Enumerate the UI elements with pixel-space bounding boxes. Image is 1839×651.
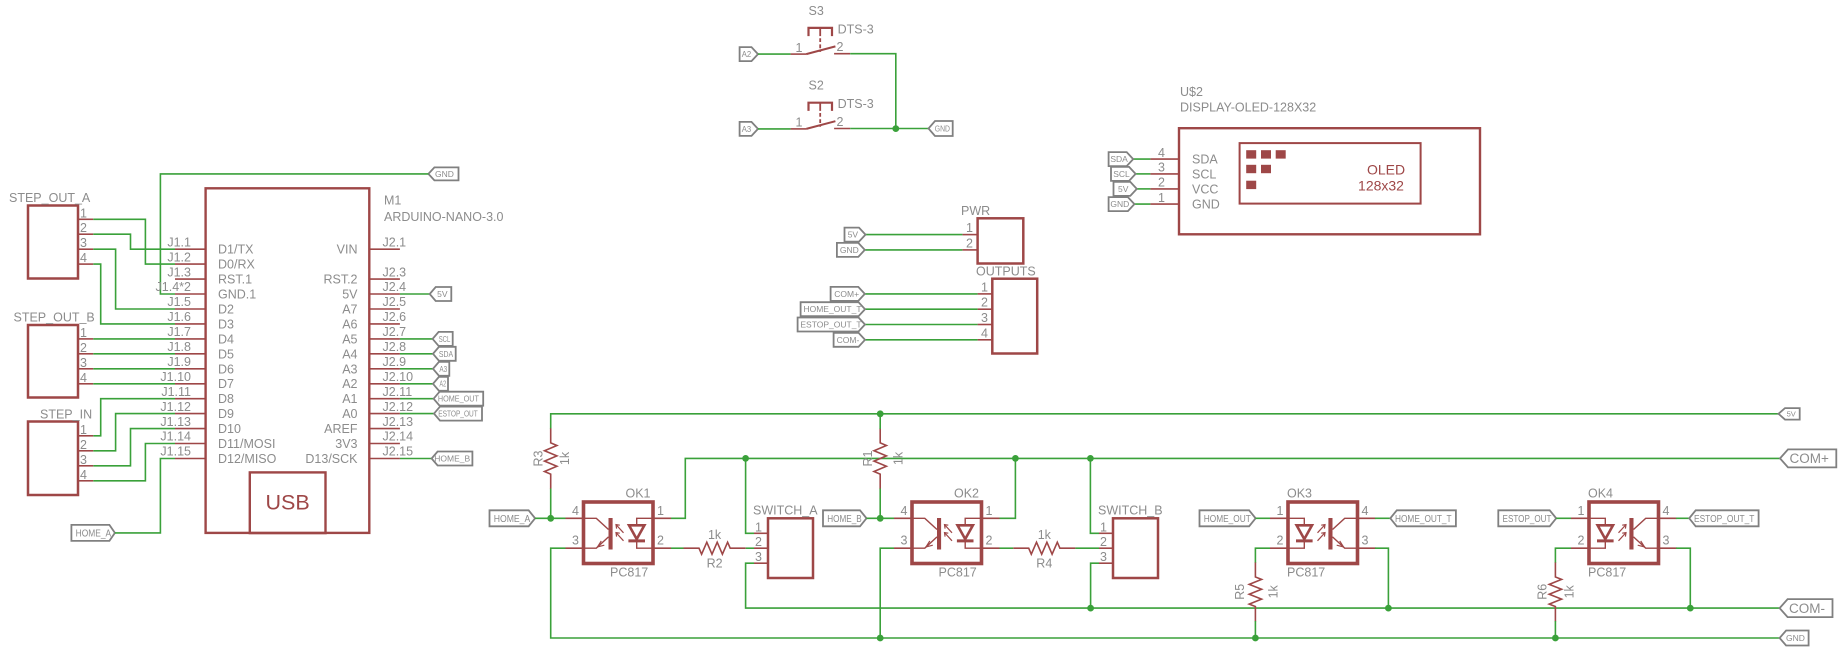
svg-text:A2: A2 <box>342 377 357 391</box>
svg-text:GND: GND <box>435 169 454 179</box>
svg-text:D6: D6 <box>218 362 234 376</box>
net flag GND <box>428 167 458 180</box>
svg-text:3: 3 <box>572 534 579 548</box>
wire COM+ to OUTPUTS <box>865 293 978 295</box>
wire SDA to U$2 <box>1133 158 1150 160</box>
svg-text:PC817: PC817 <box>610 566 648 580</box>
svg-text:3: 3 <box>1100 550 1107 564</box>
svg-text:2: 2 <box>1158 176 1165 190</box>
svg-text:A0: A0 <box>342 407 357 421</box>
svg-text:4: 4 <box>80 468 87 482</box>
svg-text:3: 3 <box>1663 534 1670 548</box>
svg-text:J2.7: J2.7 <box>383 325 407 339</box>
USB port of M1 <box>250 472 326 533</box>
svg-text:3: 3 <box>981 311 988 325</box>
net flag HOME_A <box>71 525 115 541</box>
net flag SCL <box>433 332 453 346</box>
junction R5 / GND rail <box>1252 635 1259 642</box>
svg-text:HOME_OUT: HOME_OUT <box>1204 514 1251 525</box>
net flag A3 <box>740 122 758 136</box>
svg-text:HOME_OUT_T: HOME_OUT_T <box>803 304 861 314</box>
svg-text:ESTOP_OUT_T: ESTOP_OUT_T <box>1694 514 1754 525</box>
junction SWITCH_B.3 / COM- rail <box>1087 605 1094 612</box>
net flag A2 <box>740 47 758 61</box>
net flag 5V <box>1114 182 1137 196</box>
svg-text:HOME_B: HOME_B <box>434 454 470 464</box>
connector OUTPUTS <box>976 265 1037 354</box>
svg-text:A5: A5 <box>342 332 357 346</box>
svg-text:1k: 1k <box>1563 584 1577 598</box>
wire SCL to U$2 <box>1136 173 1151 175</box>
svg-text:J2.9: J2.9 <box>383 355 407 369</box>
svg-text:GND.1: GND.1 <box>218 288 256 302</box>
net flag COM+ <box>1780 449 1836 467</box>
svg-text:D11/MOSI: D11/MOSI <box>218 437 275 451</box>
svg-text:J2.4: J2.4 <box>383 280 407 294</box>
junction HOME_A / R3 / OK1.4 <box>547 515 554 522</box>
svg-text:COM-: COM- <box>837 335 860 345</box>
net flag SCL <box>1111 167 1136 181</box>
svg-text:DTS-3: DTS-3 <box>838 22 874 36</box>
wire STEP_IN.2 to J1.12 <box>93 414 175 451</box>
optocoupler OK3 <box>1270 487 1376 580</box>
svg-text:1: 1 <box>755 520 762 534</box>
wire STEP_OUT_B.2 to J1.8 <box>93 353 175 355</box>
svg-text:OUTPUTS: OUTPUTS <box>976 265 1036 279</box>
svg-text:5V: 5V <box>437 289 448 299</box>
net flag HOME_OUT_T <box>801 302 865 316</box>
svg-text:5V: 5V <box>342 288 358 302</box>
display U$2 DISPLAY-OLED-128X32 <box>1150 85 1480 234</box>
net flag GND <box>1780 631 1809 646</box>
wire COM+ to SWITCH_A.1 <box>746 458 754 533</box>
svg-text:COM-: COM- <box>1789 601 1825 616</box>
wire COM+ to SWITCH_B.1 <box>1090 458 1099 533</box>
junction COM+ / SWITCH_B.1 <box>1087 455 1094 462</box>
wire OK2 pin3 to GND rail <box>880 548 894 638</box>
resistor R1 <box>861 428 906 489</box>
svg-text:HOME_B: HOME_B <box>827 514 862 525</box>
svg-text:J2.5: J2.5 <box>383 295 407 309</box>
svg-text:J1.4*2: J1.4*2 <box>156 280 191 294</box>
resistor R2 <box>684 528 746 571</box>
svg-text:D2: D2 <box>218 303 234 317</box>
svg-text:SDA: SDA <box>1110 154 1128 164</box>
connector PWR <box>961 204 1023 264</box>
svg-text:J1.11: J1.11 <box>161 385 191 399</box>
svg-text:HOME_A: HOME_A <box>494 514 531 525</box>
svg-text:4: 4 <box>901 504 908 518</box>
svg-text:D10: D10 <box>218 422 241 436</box>
wire J2.4 to 5V <box>400 293 430 295</box>
svg-text:J1.3: J1.3 <box>167 265 191 279</box>
resistor R6 <box>1536 563 1577 622</box>
net flag SDA <box>433 347 456 361</box>
wire J2.7 to SCL <box>400 338 433 340</box>
svg-text:AREF: AREF <box>324 422 358 436</box>
wire J2.8 to SDA <box>400 353 433 355</box>
wire STEP_IN.3 to J1.13 <box>93 429 175 466</box>
svg-text:D0/RX: D0/RX <box>218 258 255 272</box>
wire OK4 pin3 to COM- rail <box>1676 548 1690 608</box>
svg-text:SDA: SDA <box>1192 153 1218 167</box>
net flag HOME_A <box>490 510 536 526</box>
svg-text:1: 1 <box>80 326 87 340</box>
net flag 5V <box>1779 408 1800 420</box>
wire 5V rail <box>551 414 1779 429</box>
net flag GND <box>837 243 865 257</box>
svg-text:2: 2 <box>1277 534 1284 548</box>
wire R2 to SWITCH_A.2 <box>746 547 754 549</box>
net flag GND <box>1109 197 1135 211</box>
svg-text:GND: GND <box>1192 198 1220 212</box>
wire OK3 pin2 to R5 <box>1255 548 1270 563</box>
junction HOME_B / R1 / OK2.4 <box>877 515 884 522</box>
svg-text:U$2: U$2 <box>1180 85 1203 99</box>
svg-text:PC817: PC817 <box>1287 566 1325 580</box>
svg-text:OK4: OK4 <box>1588 487 1613 501</box>
wire HOME_B node to OK2 pin4 <box>867 517 895 519</box>
connector STEP_OUT_B <box>14 311 95 398</box>
wire J2.11 to HOME_OUT <box>400 398 434 400</box>
wire S3 pin2 down to GND net <box>850 54 896 129</box>
svg-text:A7: A7 <box>342 303 357 317</box>
svg-text:J1.10: J1.10 <box>160 370 191 384</box>
svg-text:DTS-3: DTS-3 <box>838 97 874 111</box>
svg-text:J2.12: J2.12 <box>383 400 414 414</box>
net flag ESTOP_OUT <box>434 407 482 421</box>
svg-text:PWR: PWR <box>961 204 990 218</box>
svg-text:D7: D7 <box>218 377 234 391</box>
svg-text:M1: M1 <box>384 194 401 208</box>
svg-text:2: 2 <box>755 535 762 549</box>
svg-text:1: 1 <box>80 206 87 220</box>
junction 5V rail / R1 <box>877 410 884 417</box>
net flag ESTOP_OUT_T <box>798 318 865 332</box>
svg-text:2: 2 <box>837 115 844 129</box>
wire COM+ rail from OK1 pin1 <box>671 458 1780 518</box>
switch S3 <box>791 4 874 55</box>
connector STEP_OUT_A <box>9 191 93 279</box>
svg-text:J1.15: J1.15 <box>160 445 191 459</box>
svg-text:STEP_OUT_B: STEP_OUT_B <box>14 311 95 325</box>
net flag 5V <box>430 287 452 301</box>
svg-text:GND: GND <box>1110 199 1129 209</box>
svg-text:A6: A6 <box>342 317 357 331</box>
wire A2 to S3 pin1 <box>758 53 791 55</box>
svg-text:2: 2 <box>80 438 87 452</box>
wire OK3 pin4 to HOME_OUT_T <box>1375 517 1390 519</box>
svg-text:HOME_OUT_T: HOME_OUT_T <box>1395 514 1452 525</box>
svg-text:J1.12: J1.12 <box>160 400 191 414</box>
svg-text:S3: S3 <box>809 4 824 18</box>
wire R3 to OK1 pin4 <box>550 489 552 519</box>
svg-text:1: 1 <box>1578 504 1585 518</box>
svg-text:1k: 1k <box>892 451 906 465</box>
svg-text:R4: R4 <box>1036 557 1052 571</box>
svg-text:S2: S2 <box>809 79 824 93</box>
svg-text:3: 3 <box>1362 534 1369 548</box>
svg-text:GND: GND <box>1786 633 1805 643</box>
svg-text:1k: 1k <box>708 528 722 542</box>
resistor R3 <box>531 428 572 489</box>
net flag ESTOP_OUT <box>1498 510 1556 526</box>
svg-text:D9: D9 <box>218 407 234 421</box>
wire HOME_A node to OK1 pin4 <box>535 517 565 519</box>
svg-text:OK1: OK1 <box>626 487 651 501</box>
module M1 ARDUINO-NANO-3.0 <box>156 188 504 533</box>
svg-text:J1.9: J1.9 <box>167 355 191 369</box>
svg-text:2: 2 <box>966 236 973 250</box>
svg-text:3: 3 <box>80 453 87 467</box>
net flag 5V <box>845 228 866 242</box>
svg-text:HOME_A: HOME_A <box>76 528 112 539</box>
optocoupler OK2 <box>894 487 1000 580</box>
svg-text:SCL: SCL <box>439 334 451 344</box>
svg-text:3: 3 <box>1158 161 1165 175</box>
svg-text:STEP_IN: STEP_IN <box>40 408 92 422</box>
svg-text:128x32: 128x32 <box>1358 178 1404 194</box>
svg-text:J2.11: J2.11 <box>383 385 413 399</box>
svg-text:ARDUINO-NANO-3.0: ARDUINO-NANO-3.0 <box>384 210 504 224</box>
svg-text:D12/MISO: D12/MISO <box>218 452 277 466</box>
svg-text:R3: R3 <box>531 450 545 466</box>
svg-text:1: 1 <box>80 423 87 437</box>
svg-text:R1: R1 <box>861 450 875 466</box>
wire J2.10 to A2 <box>400 383 433 385</box>
junction COM+ / SWITCH_A.1 <box>742 455 749 462</box>
wire OK3 pin3 to COM- rail <box>1375 548 1388 608</box>
wire ESTOP_OUT to OK4 pin1 <box>1556 517 1571 519</box>
junction OK3.3 / COM- rail <box>1385 605 1392 612</box>
wire STEP_OUT_A.2 to J1.1 <box>93 234 175 249</box>
svg-text:3V3: 3V3 <box>335 437 357 451</box>
svg-text:A2: A2 <box>440 379 447 389</box>
svg-text:DISPLAY-OLED-128X32: DISPLAY-OLED-128X32 <box>1180 101 1316 115</box>
svg-text:SCL: SCL <box>1113 169 1130 179</box>
svg-text:ESTOP_OUT: ESTOP_OUT <box>438 409 478 419</box>
wire COM- to OUTPUTS <box>865 339 978 341</box>
svg-text:4: 4 <box>1663 504 1670 518</box>
svg-text:J1.14: J1.14 <box>160 430 191 444</box>
svg-text:1: 1 <box>796 41 803 55</box>
svg-text:J2.10: J2.10 <box>383 370 414 384</box>
wire GND rail from OK1 pin3 <box>551 548 1780 638</box>
optocoupler OK4 <box>1571 487 1677 580</box>
svg-text:4: 4 <box>572 504 579 518</box>
net flag A3 <box>433 362 449 376</box>
svg-text:ESTOP_OUT_T: ESTOP_OUT_T <box>800 320 861 330</box>
svg-text:J2.6: J2.6 <box>383 310 407 324</box>
wire GND to PWR.2 <box>865 249 963 251</box>
svg-text:4: 4 <box>80 251 87 265</box>
svg-text:5V: 5V <box>1118 184 1129 194</box>
svg-text:USB: USB <box>265 491 309 515</box>
wire STEP_OUT_B.4 to J1.10 <box>93 383 175 385</box>
net flag HOME_OUT <box>434 392 484 406</box>
svg-text:HOME_OUT: HOME_OUT <box>438 394 479 404</box>
wire STEP_OUT_B.3 to J1.9 <box>93 368 175 370</box>
net flag GND <box>929 121 953 136</box>
svg-text:5V: 5V <box>848 230 859 240</box>
svg-text:PC817: PC817 <box>939 566 977 580</box>
net flag COM+ <box>831 287 865 301</box>
net flag A2 <box>433 377 448 391</box>
svg-text:1: 1 <box>966 221 973 235</box>
svg-text:R2: R2 <box>707 557 723 571</box>
svg-text:R5: R5 <box>1233 584 1247 600</box>
svg-text:3: 3 <box>755 550 762 564</box>
svg-text:1: 1 <box>657 504 664 518</box>
svg-text:J2.8: J2.8 <box>383 340 407 354</box>
wire GND to U$2 <box>1134 203 1150 205</box>
svg-text:ESTOP_OUT: ESTOP_OUT <box>1503 514 1552 525</box>
svg-text:J1.7: J1.7 <box>167 325 191 339</box>
wire COM- rail from SWITCH_A.3 <box>746 563 1780 608</box>
junction OK2.3 / GND rail <box>877 635 884 642</box>
wire OK2 pin2 to R4 <box>1000 547 1014 549</box>
svg-text:J1.1: J1.1 <box>167 235 191 249</box>
net flag SDA <box>1109 152 1134 166</box>
svg-text:2: 2 <box>1578 534 1585 548</box>
wire S2 pin2 to GND flag <box>850 128 928 130</box>
wire R4 to SWITCH_B.2 <box>1075 547 1099 549</box>
svg-text:PC817: PC817 <box>1588 566 1626 580</box>
svg-text:1: 1 <box>1277 504 1284 518</box>
svg-text:1: 1 <box>796 116 803 130</box>
svg-text:D5: D5 <box>218 347 234 361</box>
svg-text:2: 2 <box>1100 535 1107 549</box>
resistor R5 <box>1233 563 1281 622</box>
svg-text:J1.8: J1.8 <box>167 340 191 354</box>
svg-text:4: 4 <box>80 371 87 385</box>
net flag HOME_OUT <box>1200 510 1256 526</box>
junction R6 / GND rail <box>1552 635 1559 642</box>
svg-text:STEP_OUT_A: STEP_OUT_A <box>9 191 91 205</box>
svg-text:A4: A4 <box>342 347 357 361</box>
svg-text:A3: A3 <box>439 364 447 374</box>
svg-text:SCL: SCL <box>1192 167 1216 181</box>
svg-text:SWITCH_A: SWITCH_A <box>753 504 818 518</box>
wire A3 to S2 pin1 <box>758 128 791 130</box>
svg-text:J1.2: J1.2 <box>167 250 191 264</box>
svg-text:D8: D8 <box>218 392 234 406</box>
svg-text:J2.1: J2.1 <box>383 235 407 249</box>
svg-text:OLED: OLED <box>1367 162 1405 178</box>
svg-text:VIN: VIN <box>337 243 358 257</box>
svg-text:A2: A2 <box>742 49 752 59</box>
svg-text:4: 4 <box>1158 146 1165 160</box>
wire HOME_OUT to OK3 pin1 <box>1256 517 1270 519</box>
svg-text:2: 2 <box>80 341 87 355</box>
svg-text:2: 2 <box>986 534 993 548</box>
svg-text:1k: 1k <box>1038 528 1052 542</box>
svg-text:3: 3 <box>901 534 908 548</box>
wire 5V rail to R1 <box>879 414 881 429</box>
svg-text:D4: D4 <box>218 332 234 346</box>
net flag HOME_B <box>823 510 867 526</box>
junction S2/S3 GND <box>892 125 899 132</box>
wire OK2 pin1 to COM+ rail <box>1000 458 1016 518</box>
svg-text:J1.5: J1.5 <box>167 295 191 309</box>
junction OK4.3 / COM- rail <box>1687 605 1694 612</box>
svg-text:COM+: COM+ <box>1790 451 1829 466</box>
svg-text:1: 1 <box>986 504 993 518</box>
optocoupler OK1 <box>566 487 672 580</box>
wire STEP_OUT_A.4 to J1.6 <box>93 264 175 324</box>
svg-text:J2.13: J2.13 <box>383 415 414 429</box>
svg-text:RST.2: RST.2 <box>323 273 357 287</box>
svg-text:A3: A3 <box>742 124 752 134</box>
svg-text:1: 1 <box>1100 520 1107 534</box>
net flag HOME_OUT_T <box>1390 510 1456 526</box>
svg-text:J2.14: J2.14 <box>383 430 414 444</box>
wire 5V to U$2 <box>1137 188 1151 190</box>
wire GND to GND.1 <box>160 174 428 294</box>
net flag ESTOP_OUT_T <box>1689 510 1758 526</box>
svg-text:D3: D3 <box>218 317 234 331</box>
svg-text:SWITCH_B: SWITCH_B <box>1098 504 1163 518</box>
svg-text:OK2: OK2 <box>954 487 979 501</box>
svg-text:4: 4 <box>1362 504 1369 518</box>
svg-text:GND: GND <box>935 124 950 134</box>
wire J2.9 to A3 <box>400 368 433 370</box>
svg-text:4: 4 <box>981 326 988 340</box>
svg-text:2: 2 <box>837 40 844 54</box>
svg-text:1k: 1k <box>558 451 572 465</box>
svg-text:D1/TX: D1/TX <box>218 243 254 257</box>
wire 5V to PWR.1 <box>866 234 963 236</box>
net flag COM- <box>834 333 865 347</box>
net flag HOME_B <box>432 452 473 466</box>
svg-text:2: 2 <box>981 296 988 310</box>
svg-text:2: 2 <box>657 534 664 548</box>
wire R6 to GND rail <box>1554 621 1556 638</box>
svg-text:RST.1: RST.1 <box>218 273 252 287</box>
wire HOME_A to J1.15 <box>115 459 175 533</box>
wire ESTOP_OUT_T to OUTPUTS <box>865 324 978 326</box>
wire OK1 pin2 to R2 <box>671 547 684 549</box>
wire SWITCH_B.3 to COM- rail <box>1091 563 1099 608</box>
wire J2.15 to HOME_B <box>400 458 432 460</box>
svg-text:D13/SCK: D13/SCK <box>305 452 358 466</box>
svg-text:2: 2 <box>80 221 87 235</box>
svg-text:SDA: SDA <box>439 349 453 359</box>
connector SWITCH_A <box>753 504 818 579</box>
svg-text:J2.15: J2.15 <box>383 445 414 459</box>
wire J2.12 to ESTOP_OUT <box>400 413 434 415</box>
svg-text:A3: A3 <box>342 362 357 376</box>
svg-text:3: 3 <box>80 236 87 250</box>
connector SWITCH_B <box>1098 504 1163 579</box>
wire STEP_IN.4 to J1.14 <box>93 444 175 481</box>
svg-text:1: 1 <box>981 280 988 294</box>
wire STEP_OUT_B.1 to J1.7 <box>93 338 175 340</box>
svg-text:GND: GND <box>840 245 859 255</box>
wire OK4 pin2 to R6 <box>1555 548 1571 563</box>
svg-text:J1.6: J1.6 <box>167 310 191 324</box>
wire OK4 pin4 to ESTOP_OUT_T <box>1676 517 1689 519</box>
svg-text:J2.3: J2.3 <box>383 265 407 279</box>
wire STEP_IN.1 to J1.11 <box>93 399 175 436</box>
svg-text:1: 1 <box>1158 191 1165 205</box>
svg-text:VCC: VCC <box>1192 182 1218 196</box>
wire STEP_OUT_A.1 to J1.2 <box>93 219 175 264</box>
switch S2 <box>791 79 874 130</box>
wire HOME_OUT_T to OUTPUTS <box>865 308 978 310</box>
svg-text:J1.13: J1.13 <box>160 415 191 429</box>
svg-text:R6: R6 <box>1536 584 1550 600</box>
